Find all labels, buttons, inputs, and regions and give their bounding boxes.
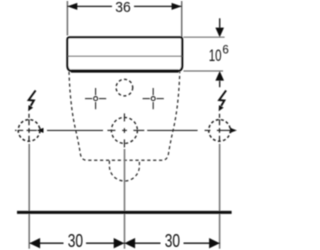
drain outlet dashed arc: [109, 161, 139, 181]
bottom dimension line: [29, 242, 219, 244]
tank bottom thick edge: [71, 69, 179, 72]
arrow center pointing left: [124, 238, 135, 248]
floor line: [17, 211, 232, 214]
right connection dashed circle: [209, 120, 231, 142]
tank (ceramic cover): [67, 37, 182, 71]
fastening point left crosshair: [85, 88, 106, 109]
stem below bottom arrow of dim 106: [219, 81, 221, 87]
extension line top of dim 106: [183, 36, 224, 38]
left circle vertical centerline: [28, 114, 30, 142]
extension line right of dim 36: [181, 1, 183, 37]
arrow center pointing right: [114, 238, 125, 248]
arrow right of dim 36: [172, 3, 182, 10]
arrow up of dim 106: [215, 71, 224, 81]
big circle south tick: [123, 139, 125, 147]
dimension line 36: [67, 5, 181, 7]
centerline arrow at right circle: [230, 128, 237, 133]
lightning bolt left: [28, 90, 35, 111]
tank seam line: [68, 55, 182, 57]
left connection dashed circle: [18, 120, 40, 142]
big circle north tick: [123, 113, 125, 121]
big dashed circle (water supply): [111, 117, 137, 143]
center extension line: [124, 149, 126, 249]
centerline arrow at left circle: [37, 128, 44, 133]
arrow down of dim 106: [215, 28, 224, 38]
extension line left of dim 36: [66, 1, 68, 36]
svg-text:36: 36: [115, 0, 131, 16]
stem above top arrow of dim 106: [219, 18, 221, 27]
svg-text:30: 30: [68, 231, 83, 250]
arrow left end bottom dim: [29, 238, 40, 248]
bowl outline dashed: [69, 72, 180, 161]
horizontal centerline segments: [15, 128, 231, 134]
small dashed circle (flush pipe): [116, 79, 133, 96]
svg-text:6: 6: [222, 45, 228, 57]
right circle vertical centerline: [219, 114, 221, 142]
arrow right end bottom dim: [209, 238, 220, 248]
extension line bottom of dim 106: [183, 70, 223, 72]
fastening point right crosshair: [143, 88, 164, 109]
arrow left of dim 36: [67, 3, 77, 10]
lightning bolt right: [219, 90, 226, 111]
extension line below right circle: [219, 144, 221, 249]
svg-text:30: 30: [165, 231, 180, 250]
extension line below left circle: [28, 144, 30, 249]
svg-text:10: 10: [209, 47, 222, 65]
big circle center cross: [122, 128, 127, 133]
